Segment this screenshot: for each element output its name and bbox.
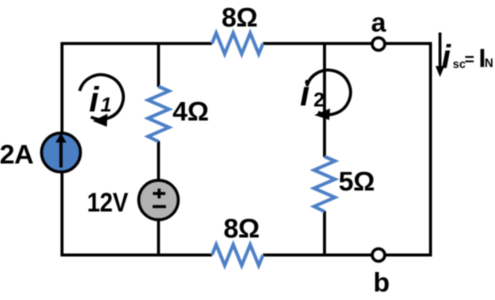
mesh current i1 loop arc	[80, 75, 124, 120]
wire right side	[429, 42, 432, 257]
svg-text:12V: 12V	[87, 188, 128, 218]
terminal b circle	[372, 249, 385, 262]
mesh current i1 arrowhead	[93, 114, 108, 127]
svg-text:i: i	[442, 38, 452, 75]
svg-text:4Ω: 4Ω	[173, 97, 209, 127]
short-circuit current arrow	[439, 33, 442, 68]
svg-text:i: i	[300, 75, 311, 114]
resistor 8ohm bottom	[212, 245, 263, 266]
resistor 4ohm	[148, 87, 169, 142]
wire middle-right branch upper	[323, 44, 326, 158]
resistor 8ohm top	[212, 33, 263, 54]
svg-text:b: b	[373, 268, 390, 298]
svg-text:i: i	[89, 81, 100, 120]
voltage source plus sign	[153, 189, 165, 199]
current source 2A arrow	[59, 141, 62, 168]
wire top-left segment	[62, 42, 212, 45]
wire middle-left branch lower	[157, 141, 160, 255]
wire top-right segment	[263, 42, 431, 45]
terminal a circle	[372, 38, 385, 51]
svg-text:2A: 2A	[0, 140, 34, 170]
svg-text:=: =	[465, 50, 475, 69]
wire bottom-left segment	[62, 254, 212, 257]
svg-text:2: 2	[314, 90, 325, 112]
current source 2A circle	[42, 133, 81, 172]
svg-text:5Ω: 5Ω	[339, 167, 375, 197]
wire middle-left branch upper	[157, 44, 160, 88]
svg-text:8Ω: 8Ω	[223, 214, 259, 244]
voltage source 12V circle	[139, 180, 179, 220]
voltage source minus sign	[153, 205, 166, 208]
wire middle-right branch lower	[323, 211, 326, 255]
mesh current i2 arrowhead	[314, 109, 330, 121]
svg-text:N: N	[485, 56, 494, 70]
svg-text:8Ω: 8Ω	[221, 3, 257, 33]
resistor 5ohm	[314, 157, 335, 212]
mesh current i2 loop arc	[307, 70, 351, 115]
wire left side	[61, 42, 64, 257]
svg-text:a: a	[371, 8, 387, 38]
svg-text:1: 1	[101, 95, 112, 117]
wire bottom-right segment	[263, 254, 431, 257]
